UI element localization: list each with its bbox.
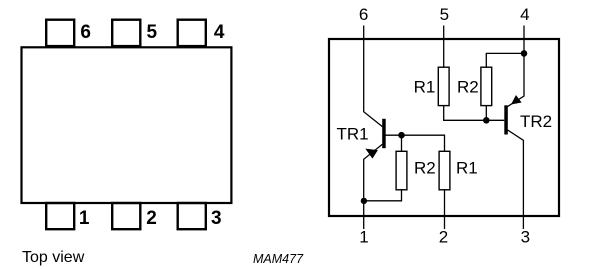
resistor R1 (TR1 series base) xyxy=(439,151,450,190)
svg-text:3: 3 xyxy=(211,208,222,229)
wire pin 5 to R1 xyxy=(443,26,445,68)
svg-text:3: 3 xyxy=(521,228,530,247)
svg-text:R1: R1 xyxy=(414,78,436,97)
pin 4 pad xyxy=(178,20,206,46)
node A junction dot xyxy=(398,132,405,139)
transistor TR1 emitter wire xyxy=(364,144,383,229)
svg-text:2: 2 xyxy=(439,228,448,247)
wire R2 top to pin 4 line xyxy=(486,53,524,67)
resistor R1 (TR2 series base) xyxy=(438,67,449,105)
svg-text:6: 6 xyxy=(80,22,91,43)
svg-text:5: 5 xyxy=(147,22,158,43)
svg-text:4: 4 xyxy=(214,22,225,43)
schematic outline box xyxy=(329,39,559,216)
wire R2 bottom to emitter node xyxy=(364,189,402,201)
svg-text:MAM477: MAM477 xyxy=(253,252,304,266)
svg-text:TR2: TR2 xyxy=(520,112,552,131)
pin 1 pad xyxy=(46,203,74,229)
svg-text:1: 1 xyxy=(359,228,368,247)
svg-text:2: 2 xyxy=(146,208,157,229)
transistor TR1 base bar xyxy=(382,119,386,148)
transistor TR2 collector wire xyxy=(508,130,524,229)
wire R1 to pin 2 xyxy=(444,189,446,229)
svg-text:6: 6 xyxy=(359,5,368,24)
svg-text:1: 1 xyxy=(79,208,90,229)
pin 6 pad xyxy=(46,20,74,46)
wire R1 bottom to TR2 base xyxy=(444,105,505,120)
svg-text:R1: R1 xyxy=(456,159,478,178)
svg-text:R2: R2 xyxy=(457,78,479,97)
svg-text:4: 4 xyxy=(520,5,529,24)
wire TR1 base xyxy=(386,135,445,151)
svg-text:R2: R2 xyxy=(414,159,436,178)
svg-text:Top view: Top view xyxy=(22,249,85,266)
wire pin 4 to TR2 emitter xyxy=(507,26,524,107)
resistor R2 (TR2 base-emitter) xyxy=(481,67,492,105)
node B junction dot xyxy=(483,117,490,124)
resistor R2 (TR1 base-emitter) xyxy=(396,151,407,190)
emitter node junction dot xyxy=(361,198,367,204)
wire node A to R2 xyxy=(401,135,403,152)
svg-text:5: 5 xyxy=(440,5,449,24)
transistor TR2 emitter arrow xyxy=(512,96,521,104)
svg-text:TR1: TR1 xyxy=(337,124,369,143)
node C junction dot xyxy=(521,50,528,57)
wire R2 bottom to node B xyxy=(485,105,487,120)
package body xyxy=(22,47,232,203)
transistor TR2 base bar xyxy=(504,105,508,134)
pin 5 pad xyxy=(112,20,140,46)
pin 3 pad xyxy=(178,203,206,229)
pin 2 pad xyxy=(112,203,140,229)
wire pin 6 to TR1 collector xyxy=(364,26,383,127)
transistor TR1 emitter arrow xyxy=(366,149,377,158)
